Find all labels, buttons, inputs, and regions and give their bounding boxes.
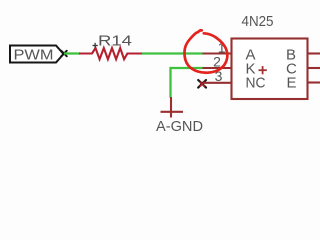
wire ground branch horizontal to pin 2 [171, 67, 204, 69]
wire PWM to R14 [64, 52, 80, 54]
pin-connection X marker at PWM tip [61, 51, 67, 57]
hand-drawn red annotation circle around pins 1-2 [184, 30, 227, 72]
svg-text:4N25: 4N25 [242, 13, 274, 30]
wire ground branch vertical [169, 67, 171, 98]
polarity + marker [259, 66, 267, 74]
resistor R14 [79, 33, 142, 60]
ground symbol A-GND [161, 97, 184, 118]
wire R14 to pin 1 of 4N25 [142, 52, 203, 54]
svg-text:R14: R14 [98, 33, 132, 50]
svg-text:NC: NC [246, 75, 266, 92]
red cross overlay at pin 3 X [200, 82, 204, 86]
svg-text:A-GND: A-GND [156, 118, 203, 135]
svg-text:E: E [287, 75, 297, 92]
pin 2 stub (K) [203, 67, 232, 69]
optocoupler U1 4N25 box [232, 39, 308, 100]
svg-text:PWM: PWM [14, 47, 54, 64]
pin 3 stub (NC) [200, 82, 232, 84]
X mark on pin 3 wire [198, 80, 206, 88]
origin cross of R14 [93, 43, 98, 48]
pin 4/5/6 stubs right (B C E) [308, 54, 320, 83]
net label PWM [10, 46, 64, 64]
pin 1 stub (A) [203, 52, 232, 54]
